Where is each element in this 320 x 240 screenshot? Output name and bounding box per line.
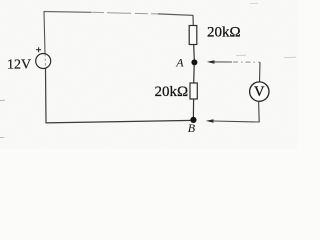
svg-text:V: V xyxy=(254,84,265,100)
svg-text:12V: 12V xyxy=(7,58,31,73)
svg-text:20kΩ: 20kΩ xyxy=(155,84,189,100)
svg-text:20kΩ: 20kΩ xyxy=(207,25,241,41)
svg-text:B: B xyxy=(188,121,196,135)
svg-text:A: A xyxy=(175,55,184,69)
